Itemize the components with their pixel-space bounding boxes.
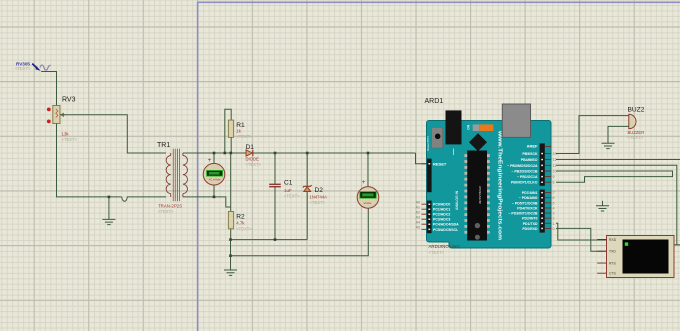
svg-text:ATMEGA328P: ATMEGA328P: [478, 186, 482, 204]
svg-text:6: 6: [553, 196, 555, 200]
svg-text:12: 12: [553, 158, 557, 162]
wire: TR1 secondary top to rail: [183, 152, 246, 154]
svg-text:~ PD6/AIN0: ~ PD6/AIN0: [519, 196, 538, 200]
ground (buzzer): [602, 143, 615, 148]
svg-text:+: +: [362, 180, 366, 186]
svg-text:ARDUINO UNO: ARDUINO UNO: [429, 244, 461, 249]
node: junction at VM2 return rail: [229, 254, 232, 257]
svg-text:PB0/ICP1/CLKO: PB0/ICP1/CLKO: [511, 181, 538, 185]
node: rail junction at D2: [306, 152, 309, 155]
svg-text:<TEXT>: <TEXT>: [236, 134, 252, 139]
wire: divider vertical R1 to R2: [230, 153, 232, 212]
node: junction on bottom rail: [108, 196, 111, 199]
svg-text:A0: A0: [416, 200, 420, 204]
svg-text:+: +: [208, 158, 212, 164]
wire: R2 bottom lead: [230, 229, 232, 240]
diode D1: [246, 144, 262, 167]
svg-text:8: 8: [553, 181, 555, 185]
wire: Arduino TX (pin 1) to terminal RXD: [556, 223, 607, 240]
voltmeter VM2 (DC): [357, 153, 379, 208]
svg-text:PB4/MISO: PB4/MISO: [521, 158, 538, 162]
wire: rail D1 cathode to RESET corner: [253, 152, 415, 154]
svg-text:<TEXT>: <TEXT>: [310, 200, 326, 205]
generator RV305 label: [15, 62, 31, 71]
node: rail junction at R1: [230, 152, 233, 155]
svg-text:0: 0: [553, 227, 555, 231]
pin stubs left: [422, 164, 428, 230]
svg-text:PD4/T0/XCK: PD4/T0/XCK: [517, 207, 538, 211]
ground (left): [102, 219, 115, 224]
wire: R1 bottom lead: [230, 137, 232, 153]
svg-text:5: 5: [553, 201, 555, 205]
svg-text:~ PD3/INT1/OC2B: ~ PD3/INT1/OC2B: [508, 212, 538, 216]
svg-text:PC2/ADC2: PC2/ADC2: [433, 213, 450, 217]
right header strip bottom: [540, 190, 545, 233]
node: rail junction left of R1: [224, 152, 227, 155]
svg-text:RV3: RV3: [62, 97, 76, 104]
svg-text:ON: ON: [467, 124, 471, 130]
svg-text:~ PD5/T1/OC0B: ~ PD5/T1/OC0B: [512, 201, 538, 205]
RV3 interactive dots: [47, 108, 51, 112]
svg-text:4.7k: 4.7k: [236, 220, 245, 225]
svg-text:TR1: TR1: [157, 142, 170, 149]
svg-text:PD2/INT0: PD2/INT0: [522, 217, 537, 221]
generator RV305 symbol: [32, 64, 50, 71]
svg-text:<TEXT>: <TEXT>: [15, 66, 31, 71]
svg-text:<TEXT>: <TEXT>: [158, 209, 174, 214]
svg-text:2: 2: [553, 217, 555, 221]
voltmeter VM1 (AC): [203, 153, 225, 197]
svg-text:1uF: 1uF: [284, 188, 292, 193]
virtual terminal: [597, 236, 674, 278]
pin names PC0-PC5: [433, 203, 459, 232]
svg-text:~ PB1/OC1A: ~ PB1/OC1A: [517, 175, 538, 179]
svg-text:3: 3: [553, 212, 555, 216]
wire: ground drop: [230, 240, 232, 270]
svg-text:11: 11: [553, 164, 557, 168]
svg-text:AREF: AREF: [527, 144, 538, 149]
wire: buzzer + to pin 13: [556, 116, 629, 154]
svg-text:A2: A2: [416, 210, 420, 214]
wire: pin 11 to terminal right side: [556, 165, 677, 245]
wire: buzzer - to ground: [608, 126, 629, 143]
capacitor C1: [269, 153, 300, 240]
ground (floating, near terminal): [596, 201, 609, 211]
node: rail junction at C1: [274, 152, 277, 155]
Arduino U1 ARD1: [416, 98, 557, 255]
transformer TR1: [157, 142, 187, 214]
svg-text:<TEXT>: <TEXT>: [628, 135, 644, 140]
sheet border (blue): [198, 2, 680, 331]
wire: RV3 bottom rail to TR1 primary bottom (with hop): [57, 124, 167, 197]
svg-text:ANALOG IN: ANALOG IN: [455, 190, 459, 210]
node: bottom rail junction at R2: [229, 238, 232, 241]
node A: rail junction at VM1: [213, 152, 216, 155]
wire: TR1 secondary bottom: [183, 197, 231, 207]
svg-text:AC mVolts: AC mVolts: [209, 177, 221, 181]
svg-text:A5: A5: [416, 226, 420, 230]
svg-text:~ PB3/MOSI/OC2A: ~ PB3/MOSI/OC2A: [507, 164, 538, 168]
zener diode D2: [303, 153, 327, 240]
svg-text:BUZ2: BUZ2: [628, 107, 645, 114]
svg-text:Volts: Volts: [363, 201, 372, 205]
svg-text:A4: A4: [416, 220, 420, 224]
wire: pin 12 heading off right edge: [556, 159, 680, 161]
node: TR1 bottom junction at VM1: [213, 196, 216, 199]
svg-text:<TEXT>: <TEXT>: [236, 227, 252, 232]
wire: RV3 wiper to TR1 primary top: [60, 115, 166, 153]
svg-text:13: 13: [553, 152, 557, 156]
pin stubs right: [545, 147, 552, 229]
svg-text:<TEXT>: <TEXT>: [429, 250, 445, 255]
svg-text:C1: C1: [284, 179, 293, 186]
wire: junction down to ground: [108, 197, 110, 220]
svg-text:Reset BTN: Reset BTN: [426, 136, 430, 151]
resistor R2: [228, 212, 252, 232]
svg-text:~ PB2/SS/OC1B: ~ PB2/SS/OC1B: [511, 170, 538, 174]
svg-text:PC5/ADC5/SCL: PC5/ADC5/SCL: [433, 228, 459, 232]
svg-text:<TEXT>: <TEXT>: [62, 137, 78, 142]
pin names PB5-PB0: [507, 152, 538, 185]
svg-text:TXD: TXD: [609, 250, 616, 254]
svg-text:RXD: RXD: [609, 238, 617, 242]
buzzer BUZ2: [628, 107, 645, 141]
svg-text:PD0/RXD: PD0/RXD: [522, 227, 538, 231]
svg-text:4: 4: [553, 207, 555, 211]
svg-text:PC3/ADC3: PC3/ADC3: [433, 218, 450, 222]
wire hop: [122, 197, 127, 201]
wire: terminal right stub off edge: [677, 244, 680, 246]
pin labels A0-A5: [416, 200, 420, 229]
svg-text:ARD1: ARD1: [425, 98, 444, 105]
node: rail junction at VM2: [367, 152, 370, 155]
node: bottom rail junction at C1: [274, 238, 277, 241]
svg-text:10: 10: [553, 170, 557, 174]
right header strip top: [540, 143, 545, 185]
svg-text:A3: A3: [416, 215, 420, 219]
potentiometer RV3: [53, 97, 78, 142]
wire: bottom rail (C1/D2 commons): [231, 239, 308, 241]
svg-text:RTS: RTS: [609, 262, 616, 266]
svg-text:CTS: CTS: [609, 272, 617, 276]
svg-text:1: 1: [553, 222, 555, 226]
pin names PD7-PD0: [508, 191, 538, 231]
header tick marks: [428, 153, 543, 230]
svg-text:TRAN-2P2S: TRAN-2P2S: [158, 203, 182, 208]
wire: rail to Arduino RESET: [416, 153, 428, 164]
IC ATMEGA328: [464, 151, 489, 241]
svg-text:PD7/AIN1: PD7/AIN1: [522, 191, 538, 195]
svg-text:PC0/ADC0: PC0/ADC0: [433, 203, 450, 207]
svg-text:<TEXT>: <TEXT>: [284, 193, 300, 198]
wire: generator to RV3 top: [41, 72, 56, 106]
left header strip analog: [427, 201, 432, 234]
svg-text:<TEXT>: <TEXT>: [246, 162, 262, 167]
svg-text:7: 7: [553, 191, 555, 195]
wire: Arduino RX (pin 0) to terminal TXD: [556, 228, 607, 251]
svg-text:www.TheEngineeringProjects.com: www.TheEngineeringProjects.com: [496, 130, 502, 240]
ground (divider): [224, 270, 237, 275]
left header strip top: [427, 159, 432, 193]
svg-text:9: 9: [553, 175, 555, 179]
svg-text:D2: D2: [315, 187, 324, 194]
svg-text:PB5/SCK: PB5/SCK: [522, 152, 538, 156]
svg-text:RESET: RESET: [433, 162, 447, 167]
svg-text:PC1/ADC1: PC1/ADC1: [433, 208, 450, 212]
wire: VM2 return rail: [231, 208, 369, 256]
wire: loop around R1: [225, 109, 231, 153]
svg-text:PD1/TXD: PD1/TXD: [523, 222, 538, 226]
pin numbers right: [553, 152, 557, 231]
resistor R1: [228, 120, 252, 139]
wire: pin 10 to pin 8 route: [556, 171, 673, 182]
svg-text:PC4/ADC4/SDA: PC4/ADC4/SDA: [433, 223, 459, 227]
svg-text:A1: A1: [416, 205, 420, 209]
